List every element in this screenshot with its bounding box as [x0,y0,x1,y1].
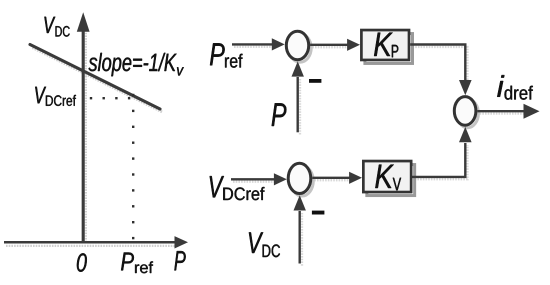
wire S3 to block KV [312,172,362,184]
block KV [363,161,411,192]
label P (x-axis) [174,251,185,270]
wire KV to summer S2 [413,127,472,177]
wire P_ref to summer S1 [232,38,285,50]
summer S1 shadow [289,34,311,62]
block KV shadow [367,165,415,196]
wire V_DCref to summer S3 [231,173,287,185]
summing junction S3 [288,163,311,193]
y-axis (V_DC axis) [77,12,90,243]
minus sign at S1 [309,79,321,83]
label i_dref (output) [497,75,533,100]
minus sign at S3 [312,211,325,215]
wire S1 to block KP [310,39,360,51]
shadow of axes and droop line [6,30,178,246]
dotted horizontal line at V_DCref [90,97,131,99]
summer S2 shadow [457,99,479,128]
label 0 (origin) [77,253,87,271]
label V_DC (y-axis) [44,17,69,37]
wire V_DC up into S3 (minus input) [294,195,306,263]
label slope=-1/Kv [89,53,184,76]
label P (input) [272,103,287,126]
wire P up into S1 (minus input) [292,61,304,132]
x-axis (P axis) [4,236,188,248]
summer S3 shadow [291,166,314,196]
summing junction S2 [454,97,476,126]
label P_ref (input) [210,43,243,67]
label V_DCref (input) [210,176,265,200]
summing junction S1 [286,31,308,59]
wire shadows (right diagram) [233,47,524,266]
block KP shadow [365,34,413,64]
label V_DC (input) [249,232,280,257]
wire KP to summer S2 [410,45,471,96]
label P_ref (x-axis value) [121,253,153,274]
wire S2 output to i_dref [477,104,539,119]
label V_DCref (y-axis value) [35,87,76,106]
dotted vertical line at P_ref [132,94,134,239]
droop line slope=-1/Kv [30,45,160,110]
block KP [361,30,409,60]
